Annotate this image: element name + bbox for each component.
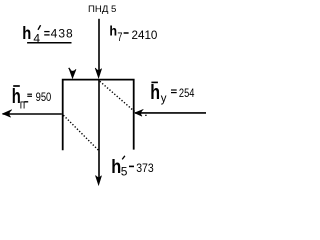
wire: steam inlet h7 (vertical from top) — [98, 19, 100, 71]
svg-text:5: 5 — [121, 165, 128, 179]
svg-text:438: 438 — [51, 27, 74, 41]
wire: seal-steam inlet from the right — [135, 112, 206, 114]
svg-text:2410: 2410 — [132, 28, 158, 42]
svg-text:h: h — [22, 24, 31, 44]
heater box ПНД-5 (open bottom) — [63, 80, 134, 151]
stray dot near right arrowhead — [145, 115, 146, 116]
label h5' = 373 — [111, 156, 154, 179]
arrowhead: right inlet pointing left into box — [135, 109, 144, 116]
svg-text:7: 7 — [117, 31, 122, 45]
label h7 = 2410 — [109, 23, 157, 45]
wire: condensate stream inside box (center) — [98, 80, 100, 179]
label hп(overbar)' = 950 — [12, 85, 51, 112]
svg-text:h: h — [150, 82, 160, 104]
dotted internal stream: left port to bottom center — [63, 115, 99, 151]
arrowhead: condensate outlet h5' at bottom — [96, 176, 102, 186]
underline of h4' label — [27, 42, 71, 44]
wire: drain outlet to the left — [3, 113, 62, 115]
svg-text:254: 254 — [179, 87, 195, 100]
svg-text:h: h — [111, 156, 121, 177]
label h4' = 438 — [22, 24, 73, 46]
svg-text:373: 373 — [136, 162, 154, 175]
arrowhead: drain outlet pointing left — [3, 110, 12, 118]
dotted internal stream: steam path to right port — [100, 81, 136, 112]
svg-text:h: h — [109, 23, 117, 39]
arrowhead: steam inlet at box top — [95, 68, 101, 78]
svg-text:у: у — [161, 93, 167, 105]
svg-text:п: п — [20, 97, 25, 111]
label hy(overbar) = 254 — [150, 82, 194, 105]
svg-text:950: 950 — [36, 91, 52, 104]
svg-text:ПНД 5: ПНД 5 — [88, 4, 116, 15]
arrowhead: condensate inlet h4' onto box top — [69, 69, 76, 78]
